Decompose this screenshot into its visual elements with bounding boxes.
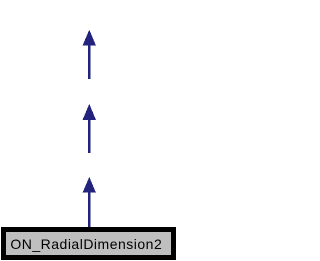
svg-text:ON_RadialDimension2: ON_RadialDimension2 <box>10 236 162 252</box>
